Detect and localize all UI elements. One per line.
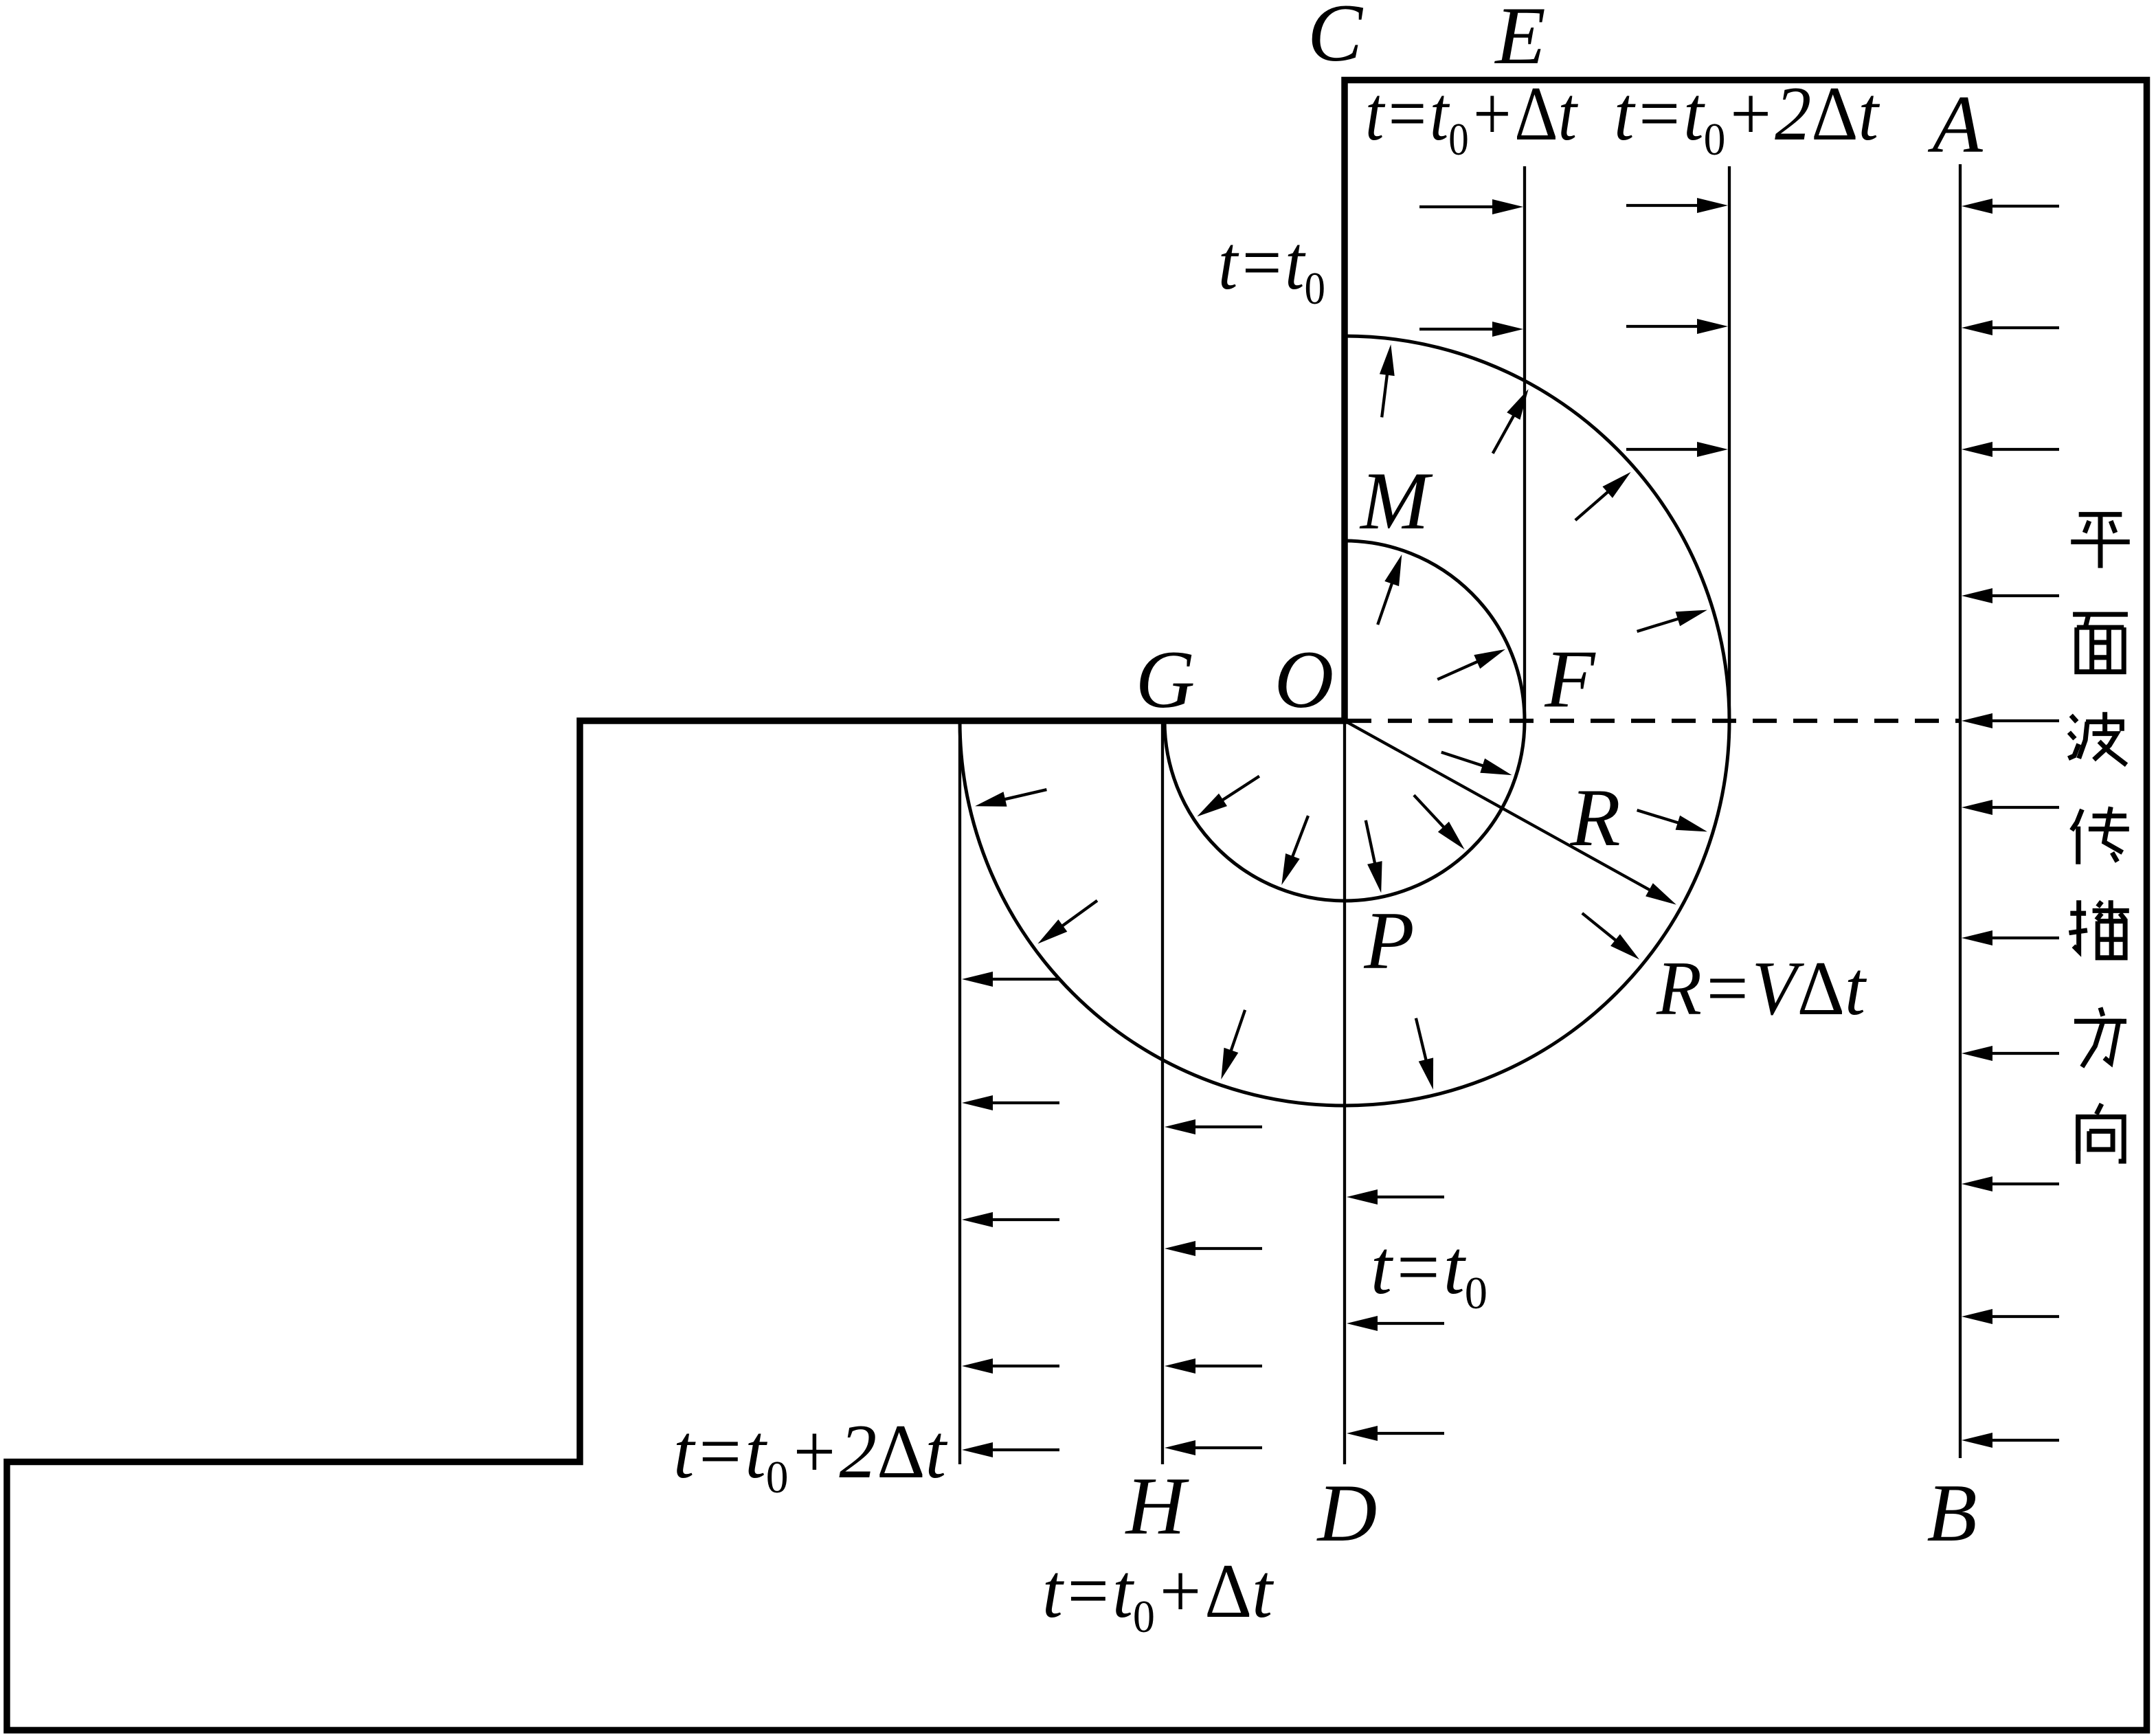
radius line R=V&#916;t with arrowhead xyxy=(1345,721,1656,893)
caption character chuan 传 (plane wave propagation direction) xyxy=(2071,807,2129,864)
caption character mian 面 (plane wave propagation direction) xyxy=(2073,614,2128,672)
diffracted circular wavefront t=t0+&#916;t (radius r about O) xyxy=(1165,541,1525,901)
caption character xiang 向 (plane wave propagation direction) xyxy=(2078,1104,2124,1163)
arrows advancing wavefront E xyxy=(1419,199,1523,337)
svg-text:R=VΔt: R=VΔt xyxy=(1656,946,1867,1031)
wavefront line H (t=t0+&#916;t, lower) xyxy=(1161,724,1164,1464)
svg-text:B: B xyxy=(1927,1467,1977,1558)
diffracted circular wavefront t=t0+2&#916;t (radius R about O) xyxy=(960,336,1729,1106)
wavefront line E (t=t0+&#916;t, upper) xyxy=(1523,166,1526,721)
svg-text:M: M xyxy=(1359,455,1433,546)
svg-text:t=t0+Δt: t=t0+Δt xyxy=(1365,71,1579,165)
svg-text:R: R xyxy=(1569,772,1620,863)
radial arrows on small diffracted wavefront xyxy=(1197,555,1512,893)
wavefront line t=t0+2&#916;t (upper) xyxy=(1728,166,1731,721)
wavefront line D (t=t0, lower) xyxy=(1343,721,1346,1464)
caption character fang 方 (plane wave propagation direction) xyxy=(2074,1007,2126,1066)
svg-text:t=t0+2Δt: t=t0+2Δt xyxy=(673,1409,948,1503)
caption character ping 平 (plane wave propagation direction) xyxy=(2071,515,2130,568)
svg-text:t=t0+2Δt: t=t0+2Δt xyxy=(1614,71,1880,165)
caption character bo 波 (plane wave propagation direction) xyxy=(2068,712,2126,765)
radial arrows on large diffracted wavefront xyxy=(975,344,1707,1090)
svg-text:H: H xyxy=(1125,1460,1190,1552)
svg-text:E: E xyxy=(1494,0,1545,81)
svg-text:D: D xyxy=(1316,1467,1378,1558)
arrows advancing wavefront t=t0+2&#916;t xyxy=(1626,198,1728,457)
arrows of incident plane wave on line A-B xyxy=(1962,199,2059,1448)
wavefront line t=t0+2&#916;t (lower) xyxy=(958,724,961,1464)
svg-text:O: O xyxy=(1274,634,1334,725)
arrows advancing wavefront H xyxy=(1165,1119,1262,1455)
caption character bo 播 (plane wave propagation direction) xyxy=(2069,900,2129,958)
svg-text:P: P xyxy=(1363,895,1414,986)
incident plane wavefront line A-B xyxy=(1959,164,1962,1458)
svg-text:A: A xyxy=(1927,78,1983,170)
arrows advancing wavefront D xyxy=(1347,1189,1444,1441)
svg-text:C: C xyxy=(1307,0,1364,78)
svg-text:G: G xyxy=(1136,634,1195,725)
svg-text:t=t0+Δt: t=t0+Δt xyxy=(1042,1549,1274,1642)
dashed axis line from corner O to wavefront A xyxy=(1347,719,1961,723)
svg-text:F: F xyxy=(1544,633,1596,724)
arrows advancing lower wavefront t=t0+2&#916;t xyxy=(962,972,1059,1457)
